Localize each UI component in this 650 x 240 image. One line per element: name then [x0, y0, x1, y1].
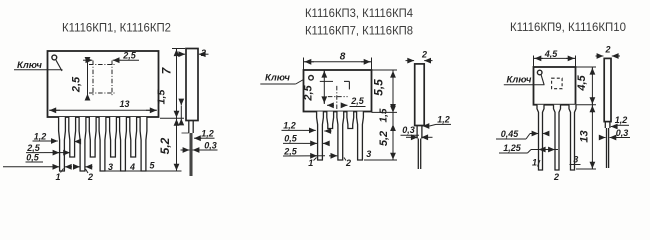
- svg-text:0,3: 0,3: [402, 125, 415, 135]
- short lead stub 4: [130, 117, 137, 157]
- svg-text:1,5: 1,5: [379, 108, 390, 122]
- svg-text:К1116КП1, К1116КП2: К1116КП1, К1116КП2: [62, 21, 171, 35]
- package body side view K1116KP9: [604, 58, 611, 121]
- pin 5: [140, 117, 147, 171]
- dim 4,5 package width right: [533, 56, 535, 68]
- dim 4,5 package height right: [576, 66, 597, 68]
- dim 5,2 pin length: [176, 118, 178, 171]
- svg-text:2,5: 2,5: [283, 146, 298, 156]
- svg-text:0,45: 0,45: [501, 129, 520, 139]
- svg-text:2: 2: [87, 172, 93, 182]
- svg-text:13: 13: [579, 130, 591, 142]
- svg-text:Ключ: Ключ: [265, 73, 290, 84]
- middle side pin narrow part: [417, 139, 419, 170]
- svg-text:3: 3: [366, 149, 371, 159]
- dim 2 side width: [177, 53, 186, 55]
- svg-text:4,5: 4,5: [544, 49, 559, 59]
- package body front view K1116KP1: [48, 51, 159, 117]
- sensitive area dashed square right: [552, 78, 563, 89]
- svg-text:4,5: 4,5: [576, 74, 588, 91]
- svg-text:0,5: 0,5: [284, 134, 298, 144]
- pin 1 middle: [317, 112, 324, 161]
- svg-text:К1116КП7, К1116КП8: К1116КП7, К1116КП8: [305, 24, 413, 38]
- package body front view K1116KP3: [304, 70, 372, 112]
- svg-text:2,5: 2,5: [303, 84, 315, 101]
- short lead stub middle 1: [327, 112, 334, 129]
- sensitive area crystal outline middle: [320, 80, 333, 82]
- pin 2 right: [554, 105, 561, 170]
- right side pin narrow part: [606, 128, 608, 168]
- svg-text:2: 2: [604, 45, 610, 55]
- pin 2 middle: [337, 112, 344, 161]
- svg-text:2,5: 2,5: [71, 76, 83, 93]
- extension pin ends right: [576, 168, 596, 170]
- dim 13 pin length right: [591, 105, 593, 169]
- svg-text:1: 1: [532, 158, 537, 168]
- svg-text:1,2: 1,2: [283, 121, 296, 131]
- short lead stub 1: [69, 117, 76, 157]
- side view pin narrow part: [189, 133, 191, 176]
- svg-text:1: 1: [308, 158, 313, 168]
- svg-text:1,2: 1,2: [615, 115, 628, 125]
- svg-text:2: 2: [553, 172, 559, 182]
- dim 13 package width: [49, 109, 157, 111]
- svg-text:1,5: 1,5: [156, 90, 168, 105]
- extension line pin ends: [103, 170, 182, 172]
- sensitive area dash-dot square: [89, 64, 116, 66]
- svg-text:2,5: 2,5: [350, 96, 365, 106]
- svg-text:1,2: 1,2: [437, 115, 450, 125]
- dim 7 side height: [176, 49, 178, 119]
- pin 1: [59, 117, 66, 171]
- svg-text:0,3: 0,3: [616, 128, 629, 138]
- key circle middle: [309, 76, 314, 81]
- short lead stub 2: [89, 117, 96, 157]
- dim 5,2 middle pin length: [392, 124, 394, 160]
- extension package bottom right middle: [372, 111, 398, 113]
- dim 1,5: [180, 106, 182, 118]
- short lead stub 3: [110, 117, 117, 157]
- dim 2,5 crystal middle: [327, 104, 334, 106]
- pin 3 right: [569, 105, 576, 170]
- svg-text:К1116КП9, К1116КП10: К1116КП9, К1116КП10: [510, 20, 626, 34]
- svg-text:1,2: 1,2: [34, 132, 47, 142]
- dim 2,5 vertical of square: [87, 57, 89, 100]
- svg-text:3: 3: [573, 155, 578, 165]
- svg-text:2: 2: [421, 50, 427, 60]
- package body front view K1116KP9: [534, 67, 576, 105]
- side view pin wide part: [188, 121, 190, 134]
- extension line package bottom to side view: [160, 117, 184, 119]
- svg-text:1: 1: [55, 172, 60, 182]
- dim 8 package width: [303, 58, 305, 71]
- package body side view K1116KP3: [415, 64, 425, 126]
- svg-text:1,2: 1,2: [201, 129, 214, 139]
- middle side pin wide part: [416, 126, 418, 139]
- dim 2 middle side width: [406, 60, 415, 62]
- svg-text:2: 2: [200, 48, 206, 58]
- key flag line right: [541, 75, 544, 85]
- dim 1,5 middle: [392, 112, 394, 124]
- svg-text:К1116КП3, К1116КП4: К1116КП3, К1116КП4: [305, 6, 413, 20]
- svg-text:13: 13: [119, 99, 129, 109]
- extension line top of side view: [172, 48, 185, 50]
- svg-text:2,5: 2,5: [122, 50, 137, 60]
- svg-text:0,5: 0,5: [26, 152, 40, 162]
- leader to key corner: [296, 80, 304, 85]
- svg-text:Ключ: Ключ: [507, 75, 532, 86]
- dim 2,5 horizontal of square: [83, 59, 92, 61]
- short lead stub middle 2: [347, 112, 354, 129]
- right side pin wide part: [604, 122, 606, 128]
- svg-text:8: 8: [340, 52, 346, 63]
- pin 4: [120, 117, 127, 171]
- svg-text:5,5: 5,5: [372, 79, 386, 96]
- pin 3 middle: [357, 112, 364, 161]
- pin 2: [79, 117, 86, 171]
- key circle: [52, 55, 57, 60]
- key circle right: [537, 70, 542, 75]
- svg-text:5,2: 5,2: [158, 137, 172, 154]
- dim 5,5 package height: [372, 69, 398, 71]
- dim 2 right side width: [596, 55, 604, 57]
- pin 3: [99, 117, 106, 171]
- svg-text:0,3: 0,3: [204, 140, 217, 150]
- package body side view K1116KP1: [186, 49, 198, 121]
- svg-text:5,2: 5,2: [378, 131, 390, 146]
- extension pin ends middle: [364, 159, 397, 161]
- svg-text:1,25: 1,25: [503, 143, 522, 153]
- pin 1 right: [537, 105, 544, 170]
- key flag line: [56, 60, 62, 71]
- dim 2,5 from top to crystal: [323, 70, 325, 104]
